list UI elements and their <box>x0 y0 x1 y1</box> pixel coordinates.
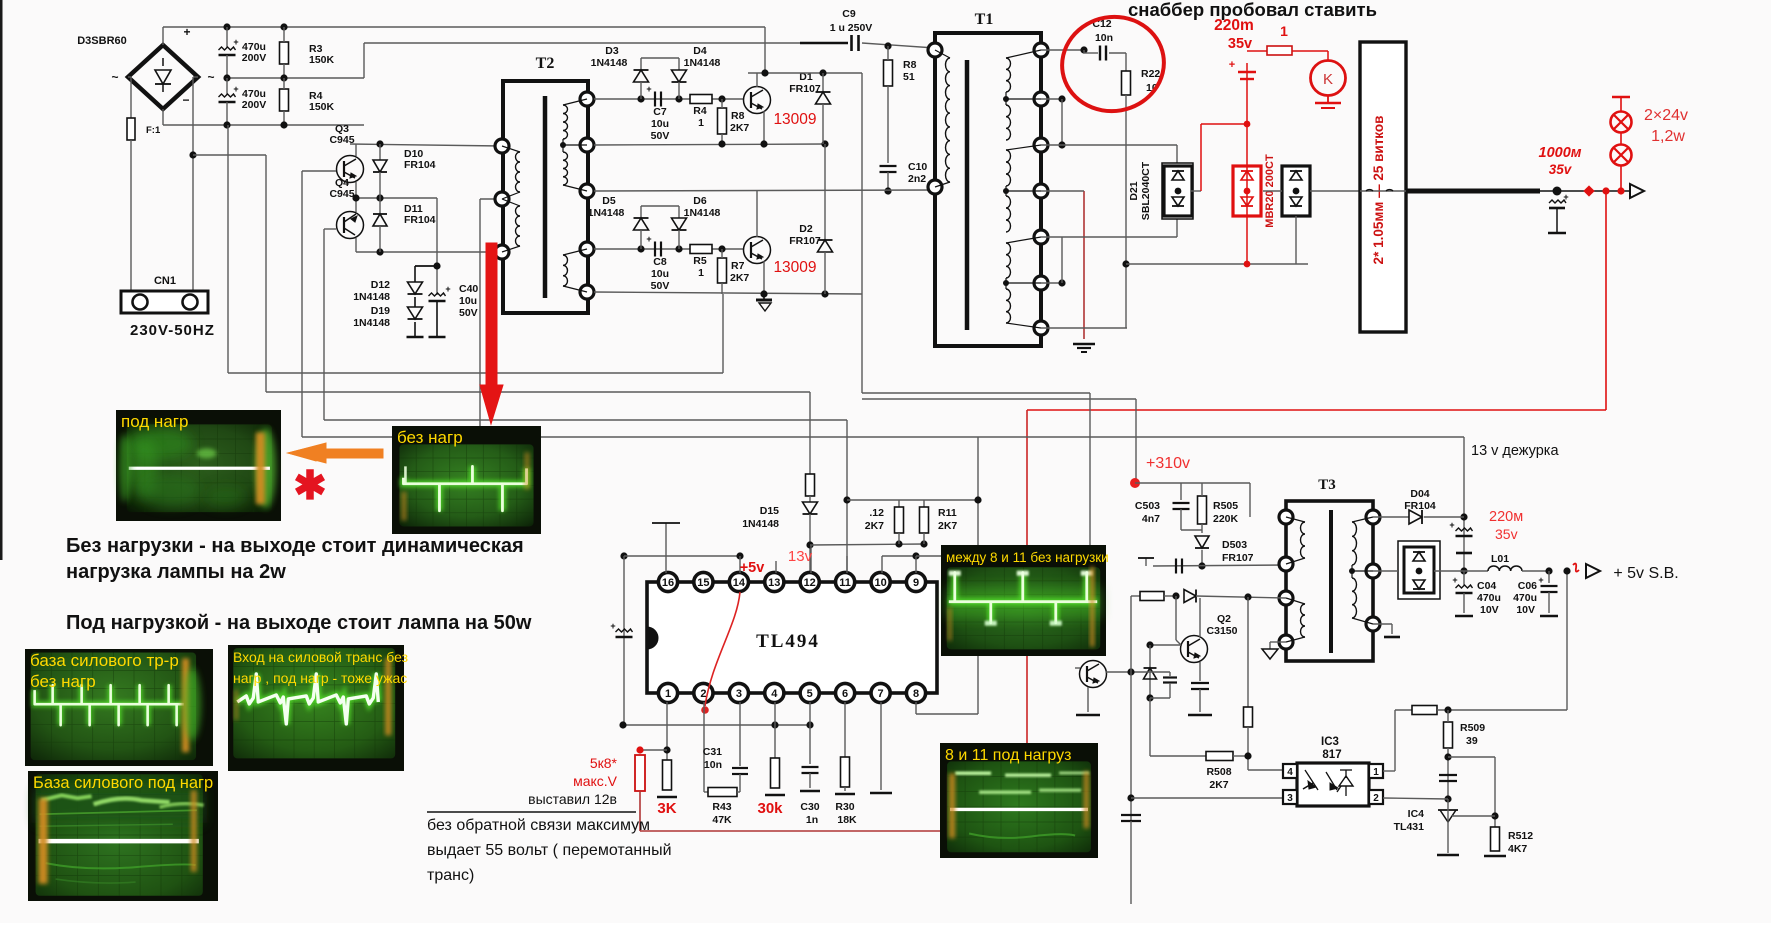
svg-text:FR104: FR104 <box>404 159 436 171</box>
svg-text:выдает 55 вольт ( перемотанный: выдает 55 вольт ( перемотанный <box>427 842 672 859</box>
svg-text:150K: 150K <box>309 101 335 113</box>
svg-text:1 u 250V: 1 u 250V <box>830 22 873 34</box>
svg-text:C06: C06 <box>1518 580 1537 592</box>
svg-text:.12: .12 <box>869 507 884 519</box>
svg-text:Под нагрузкой - на выходе стои: Под нагрузкой - на выходе стоит лампа на… <box>66 612 532 634</box>
svg-text:FR104: FR104 <box>1404 500 1436 512</box>
svg-text:без нагр: без нагр <box>397 428 463 447</box>
svg-text:IC4: IC4 <box>1408 808 1425 820</box>
svg-text:+: + <box>1452 575 1457 585</box>
svg-text:2K7: 2K7 <box>938 520 957 532</box>
svg-text:выставил 12в: выставил 12в <box>528 791 617 807</box>
svg-text:R22: R22 <box>1141 68 1160 80</box>
svg-text:+: + <box>233 37 238 47</box>
svg-text:1: 1 <box>1373 767 1379 778</box>
svg-text:снаббер пробовал ставить: снаббер пробовал ставить <box>1128 0 1377 20</box>
svg-text:+: + <box>610 621 615 631</box>
svg-text:+: + <box>233 84 238 94</box>
svg-text:FR107: FR107 <box>789 235 821 247</box>
svg-text:R30: R30 <box>835 801 854 813</box>
svg-text:2: 2 <box>700 688 706 700</box>
svg-text:13 v дежурка: 13 v дежурка <box>1471 443 1559 459</box>
svg-text:D12: D12 <box>371 279 390 291</box>
svg-text:R7: R7 <box>731 260 745 272</box>
svg-text:50V: 50V <box>459 307 478 319</box>
svg-text:6: 6 <box>842 688 848 700</box>
svg-text:1N4148: 1N4148 <box>588 207 625 219</box>
svg-text:13009: 13009 <box>773 259 816 276</box>
svg-text:D04: D04 <box>1410 488 1429 500</box>
svg-text:30k: 30k <box>757 800 783 817</box>
svg-text:R512: R512 <box>1508 830 1533 842</box>
svg-text:~: ~ <box>111 70 118 84</box>
svg-text:макс.V: макс.V <box>573 773 618 789</box>
svg-text:D15: D15 <box>760 505 779 517</box>
svg-text:817: 817 <box>1322 749 1341 761</box>
svg-text:−: − <box>182 93 189 107</box>
svg-text:50V: 50V <box>651 130 670 142</box>
svg-text:IC3: IC3 <box>1321 736 1339 748</box>
svg-text:1N4148: 1N4148 <box>684 207 721 219</box>
svg-text:2K7: 2K7 <box>865 520 884 532</box>
svg-text:D3: D3 <box>605 45 619 57</box>
svg-text:D3SBR60: D3SBR60 <box>77 35 127 47</box>
svg-text:1: 1 <box>1280 23 1288 39</box>
svg-text:база силового тр-р: база силового тр-р <box>30 651 179 670</box>
svg-text:D4: D4 <box>693 45 707 57</box>
svg-text:5: 5 <box>807 688 813 700</box>
svg-text:9: 9 <box>913 577 919 589</box>
svg-text:2: 2 <box>1373 793 1379 804</box>
svg-text:R508: R508 <box>1206 766 1231 778</box>
svg-text:D19: D19 <box>371 305 390 317</box>
svg-text:между 8 и 11 без нагрузки: между 8 и 11 без нагрузки <box>946 550 1109 565</box>
svg-text:D21: D21 <box>1128 181 1140 200</box>
svg-text:5к8*: 5к8* <box>590 755 618 771</box>
svg-text:✱: ✱ <box>293 464 327 508</box>
svg-text:16: 16 <box>662 577 674 589</box>
svg-text:C31: C31 <box>703 746 722 758</box>
svg-text:4: 4 <box>771 688 778 700</box>
svg-text:35v: 35v <box>1495 526 1518 542</box>
svg-text:35v: 35v <box>1549 162 1573 177</box>
svg-text:R43: R43 <box>712 801 731 813</box>
svg-text:FR107: FR107 <box>1222 552 1254 564</box>
svg-text:10u: 10u <box>459 295 477 307</box>
svg-text:13009: 13009 <box>773 111 816 128</box>
svg-text:+: + <box>1538 575 1543 585</box>
svg-text:230V-50HZ: 230V-50HZ <box>130 322 215 339</box>
svg-text:C8: C8 <box>653 256 667 268</box>
svg-text:C7: C7 <box>653 106 667 118</box>
svg-text:1000м: 1000м <box>1539 145 1582 161</box>
svg-text:4K7: 4K7 <box>1508 843 1527 855</box>
svg-text:1N4148: 1N4148 <box>591 57 628 69</box>
svg-text:1: 1 <box>665 688 671 700</box>
svg-text:D5: D5 <box>602 195 616 207</box>
svg-text:1: 1 <box>698 267 704 279</box>
svg-text:220м: 220м <box>1489 509 1523 525</box>
svg-text:R509: R509 <box>1460 722 1485 734</box>
svg-text:150K: 150K <box>309 54 335 66</box>
svg-text:без обратной связи максимум: без обратной связи максимум <box>427 817 650 834</box>
svg-text:CN1: CN1 <box>154 275 176 287</box>
svg-text:2K7: 2K7 <box>1209 779 1228 791</box>
svg-text:1N4148: 1N4148 <box>353 291 390 303</box>
svg-text:2K7: 2K7 <box>730 272 749 284</box>
svg-text:3: 3 <box>1287 793 1293 804</box>
svg-text:+ 5v S.B.: + 5v S.B. <box>1613 565 1678 582</box>
svg-text:R8: R8 <box>903 59 917 71</box>
svg-text:FR104: FR104 <box>404 214 436 226</box>
svg-text:200V: 200V <box>242 99 267 111</box>
svg-text:R5: R5 <box>693 255 707 267</box>
svg-text:35v: 35v <box>1228 36 1252 52</box>
svg-text:TL431: TL431 <box>1394 821 1425 833</box>
svg-text:TL494: TL494 <box>756 631 820 652</box>
svg-text:L01: L01 <box>1491 553 1509 565</box>
svg-text:13v: 13v <box>788 548 813 565</box>
svg-text:10u: 10u <box>651 268 669 280</box>
svg-text:D503: D503 <box>1222 539 1247 551</box>
svg-text:D2: D2 <box>799 223 813 235</box>
svg-text:+: + <box>646 84 651 94</box>
svg-text:11: 11 <box>839 577 851 589</box>
svg-text:нагрузка лампы на 2w: нагрузка лампы на 2w <box>66 561 286 583</box>
svg-text:2n2: 2n2 <box>908 173 926 185</box>
svg-text:13: 13 <box>768 577 780 589</box>
svg-text:220K: 220K <box>1213 513 1239 525</box>
svg-text:10V: 10V <box>1516 604 1535 616</box>
svg-text:18K: 18K <box>837 814 857 826</box>
svg-text:12: 12 <box>804 577 816 589</box>
svg-text:8: 8 <box>913 688 919 700</box>
svg-text:транс): транс) <box>427 867 474 884</box>
svg-text:470u: 470u <box>1513 592 1537 604</box>
svg-text:14: 14 <box>733 577 746 589</box>
svg-text:D6: D6 <box>693 195 707 207</box>
svg-text:2K7: 2K7 <box>730 122 749 134</box>
svg-text:FR107: FR107 <box>789 83 821 95</box>
svg-text:C04: C04 <box>1477 580 1496 592</box>
svg-text:8 и 11 под нагруз: 8 и 11 под нагруз <box>945 747 1071 764</box>
svg-text:SBL2040CT: SBL2040CT <box>1140 161 1152 220</box>
svg-text:T3: T3 <box>1318 477 1336 493</box>
svg-text:под нагр: под нагр <box>121 412 188 431</box>
svg-text:3: 3 <box>736 688 742 700</box>
svg-text:C30: C30 <box>800 801 819 813</box>
svg-text:C40: C40 <box>459 283 478 295</box>
svg-text:+5v: +5v <box>740 560 765 576</box>
svg-text:2* 1.05мм — 25 витков: 2* 1.05мм — 25 витков <box>1371 116 1386 265</box>
svg-text:1: 1 <box>698 117 704 129</box>
svg-text:200V: 200V <box>242 52 267 64</box>
svg-text:C10: C10 <box>908 161 927 173</box>
svg-text:R4: R4 <box>693 105 707 117</box>
svg-text:+: + <box>646 234 651 244</box>
svg-text:10u: 10u <box>651 118 669 130</box>
svg-text:+: + <box>1229 59 1235 71</box>
svg-text:F:1: F:1 <box>146 125 161 136</box>
svg-text:470u: 470u <box>1477 592 1501 604</box>
svg-text:39: 39 <box>1466 735 1478 747</box>
svg-text:2×24v: 2×24v <box>1644 107 1688 124</box>
svg-text:R11: R11 <box>938 507 957 519</box>
svg-text:K: K <box>1323 71 1333 88</box>
svg-text:+: + <box>1449 520 1454 530</box>
svg-text:R8: R8 <box>731 110 745 122</box>
svg-text:без нагр: без нагр <box>30 672 96 691</box>
svg-text:1n: 1n <box>806 814 818 826</box>
svg-text:+310v: +310v <box>1146 455 1190 472</box>
svg-text:4: 4 <box>1287 767 1293 778</box>
svg-text:R505: R505 <box>1213 500 1238 512</box>
svg-text:База силового под нагр: База силового под нагр <box>33 774 213 792</box>
svg-text:15: 15 <box>697 577 709 589</box>
svg-text:Вход на силовой транс без: Вход на силовой транс без <box>233 649 408 665</box>
svg-text:C945: C945 <box>329 188 354 200</box>
svg-text:~: ~ <box>207 70 214 84</box>
svg-text:T1: T1 <box>975 11 994 28</box>
svg-text:7: 7 <box>878 688 884 700</box>
svg-text:10n: 10n <box>1095 32 1113 44</box>
svg-text:10V: 10V <box>1480 604 1499 616</box>
svg-text:C9: C9 <box>842 8 856 20</box>
svg-text:C3150: C3150 <box>1207 625 1238 637</box>
svg-text:нагр , под нагр - тоже ужас: нагр , под нагр - тоже ужас <box>233 670 407 686</box>
svg-text:10n: 10n <box>704 759 722 771</box>
svg-text:Без нагрузки - на выходе стоит: Без нагрузки - на выходе стоит динамичес… <box>66 535 524 557</box>
svg-text:Q2: Q2 <box>1217 613 1231 625</box>
svg-text:3K: 3K <box>657 800 676 817</box>
svg-text:1N4148: 1N4148 <box>742 518 779 530</box>
svg-text:+: + <box>1563 192 1568 202</box>
svg-text:C503: C503 <box>1135 500 1160 512</box>
svg-text:+: + <box>445 284 450 294</box>
svg-text:10: 10 <box>874 577 886 589</box>
svg-text:1N4148: 1N4148 <box>684 57 721 69</box>
svg-text:47K: 47K <box>712 814 732 826</box>
svg-text:4n7: 4n7 <box>1142 513 1160 525</box>
svg-text:51: 51 <box>903 71 915 83</box>
svg-text:1N4148: 1N4148 <box>353 317 390 329</box>
svg-text:T2: T2 <box>536 55 555 72</box>
svg-text:1,2w: 1,2w <box>1651 128 1685 145</box>
svg-text:50V: 50V <box>651 280 670 292</box>
